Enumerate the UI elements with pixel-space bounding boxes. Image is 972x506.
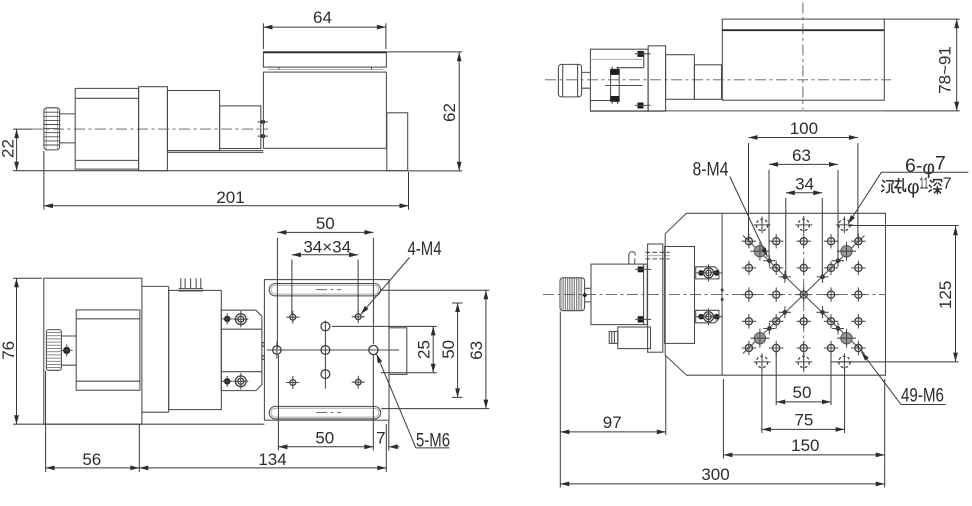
svg-text:50: 50 [439, 340, 458, 359]
centerline (view1 axis) [32, 128, 268, 130]
dimension 100 [749, 119, 858, 240]
motor block M1 [75, 88, 138, 169]
dimension 25 [332, 326, 437, 372]
motor block M4 [591, 264, 647, 325]
table plate V3 [264, 280, 389, 421]
svg-text:φ: φ [907, 176, 920, 198]
svg-text:25: 25 [415, 340, 434, 359]
dimension 78~91 [884, 19, 960, 111]
M6 hole grid 5x5 (49-M6) [742, 234, 866, 355]
svg-text:49-M6: 49-M6 [901, 385, 944, 407]
dimension 50 top [277, 214, 373, 348]
label 5-M6 with leader [377, 354, 451, 452]
shaft of K2 [582, 72, 591, 88]
outer base rect V3 [44, 278, 142, 424]
svg-text:8-M4: 8-M4 [693, 159, 729, 181]
vertical plate P4 [648, 244, 663, 352]
shaft of K1 [60, 114, 76, 143]
svg-text:63: 63 [792, 146, 811, 165]
M6 holes center column [321, 322, 330, 379]
svg-text:7: 7 [376, 428, 385, 447]
svg-text:64: 64 [313, 8, 332, 27]
svg-text:125: 125 [936, 281, 955, 309]
dimension 201 [44, 151, 409, 210]
char: kong [895, 179, 906, 193]
base bottom line [13, 170, 409, 172]
step block S1 [387, 113, 408, 171]
char: shen [929, 180, 942, 194]
svg-text:63: 63 [467, 341, 486, 360]
knob K2 [558, 64, 581, 97]
svg-text:11: 11 [920, 176, 929, 193]
bracket with screws V3 [221, 310, 262, 390]
dimension 22 [0, 129, 32, 171]
diagonal X lines [743, 236, 865, 354]
screws on M4 right edge [635, 267, 651, 323]
dimension 134 [139, 424, 386, 472]
dimension 64 [263, 8, 386, 49]
svg-text:300: 300 [701, 465, 729, 484]
side block V3 [389, 328, 407, 375]
body bottom line V3 [13, 423, 264, 425]
top table plate T1 [263, 52, 386, 70]
label 8-M4 with leader [693, 159, 768, 257]
dimension 50 bottom v4 [776, 352, 831, 405]
knob K3 [46, 330, 61, 371]
dimension 62 [386, 52, 462, 171]
step block S2b [694, 65, 721, 100]
svg-text:34×34: 34×34 [303, 237, 351, 256]
motor block M3 [76, 310, 140, 390]
label 49-M6 with leader [862, 352, 946, 407]
base line view2 [590, 110, 884, 112]
M6 hole right [369, 345, 378, 354]
carriage edge line inside plate [721, 213, 723, 375]
carriage rect V4 [665, 247, 695, 344]
connector on top of gear block [179, 278, 204, 291]
M4 holes (4x) [286, 310, 364, 389]
svg-text:78~91: 78~91 [936, 46, 955, 94]
screw bracket bottom V4 [696, 308, 722, 325]
dimension 63 right [381, 290, 489, 408]
gear block V3 [169, 290, 222, 409]
vertical plate P2 [648, 46, 665, 111]
set screw diamond on K4 shaft [582, 292, 587, 297]
chinese note: chen kong (counterbore) phi 11 depth 7 [882, 176, 952, 199]
label 4-M4 with leader [361, 238, 442, 314]
shaft of K4 [585, 288, 591, 302]
connector hook on M4 top [629, 252, 635, 264]
motor block M2 [590, 49, 648, 111]
svg-text:50: 50 [793, 383, 812, 402]
svg-text:76: 76 [0, 341, 18, 360]
screws on M2 right edge [635, 51, 651, 109]
svg-text:7: 7 [943, 176, 952, 193]
step block S2a [666, 55, 695, 100]
bottom connector box M4 [609, 327, 650, 349]
svg-text:50: 50 [316, 214, 335, 233]
dimension 50 right [439, 303, 463, 397]
M6 hole left [273, 342, 281, 359]
set screw on K3 shaft [61, 344, 73, 356]
hidden dashed lines P4 [646, 252, 670, 259]
counterbored M6 (gray filled, 4x) [750, 242, 856, 348]
svg-text:56: 56 [82, 450, 101, 469]
centerline vertical view2 [802, 3, 804, 110]
top slot [269, 284, 380, 296]
big table plate outline V4 [665, 213, 885, 375]
label 6-phi7 / counterbore note with leader [848, 153, 968, 225]
dimension 300 [560, 465, 884, 484]
shaft of K3 [61, 336, 76, 365]
dimension 50 bottom [278, 355, 373, 451]
centerline horizontal view2 [545, 79, 891, 81]
bracket plate P1 [139, 87, 168, 171]
dimension 63 top [769, 146, 838, 259]
tick marks on carriage edge [721, 289, 724, 301]
plate centerlines [267, 321, 399, 389]
inner housing lines [590, 52, 643, 101]
bracket screws (open) [233, 311, 248, 390]
plate centerline vertical [803, 216, 805, 373]
connection tabs [262, 343, 265, 360]
screw bracket top V4 [696, 264, 722, 281]
char: chen [882, 180, 894, 192]
svg-text:100: 100 [790, 119, 818, 138]
dimension 97 [560, 312, 666, 488]
svg-text:75: 75 [794, 411, 813, 430]
knob K4 [560, 278, 585, 311]
svg-text:34: 34 [795, 174, 814, 193]
svg-text:97: 97 [603, 413, 622, 432]
dimension 76 [0, 278, 42, 424]
dimension 125 [831, 226, 958, 362]
svg-text:50: 50 [315, 428, 334, 447]
screw marks on body joint [258, 120, 269, 137]
bottom slot [269, 406, 380, 419]
svg-text:134: 134 [258, 450, 286, 469]
svg-text:150: 150 [791, 436, 819, 455]
dimension 34x34 [292, 237, 358, 315]
gearbox block B2 [167, 91, 219, 151]
svg-text:4-M4: 4-M4 [408, 238, 442, 260]
plate/motor centerline horizontal [543, 294, 886, 296]
gray inner line M2 [590, 58, 642, 60]
M4 diamonds on diagonals (8-M4) [763, 255, 844, 335]
dimension 7 [376, 421, 399, 451]
dimension 75 [762, 368, 845, 433]
carriage block B5 [722, 19, 884, 100]
svg-text:201: 201 [216, 188, 244, 207]
bracket screws (filled) [222, 313, 233, 386]
dimension 56 [46, 371, 140, 473]
knob K1 (knurled, side view) [44, 108, 60, 150]
main body B4 [263, 72, 386, 148]
coupling C2 [605, 67, 642, 104]
svg-text:62: 62 [440, 103, 459, 122]
dimension 34 top [786, 174, 823, 275]
dimension 150 [723, 379, 884, 488]
slide lines under B2 [167, 151, 263, 153]
mid section V3 [142, 286, 169, 412]
coupling block B3 [220, 106, 261, 149]
counterbore holes 6-phi7 (dashed) [754, 216, 853, 370]
svg-text:22: 22 [0, 139, 18, 158]
